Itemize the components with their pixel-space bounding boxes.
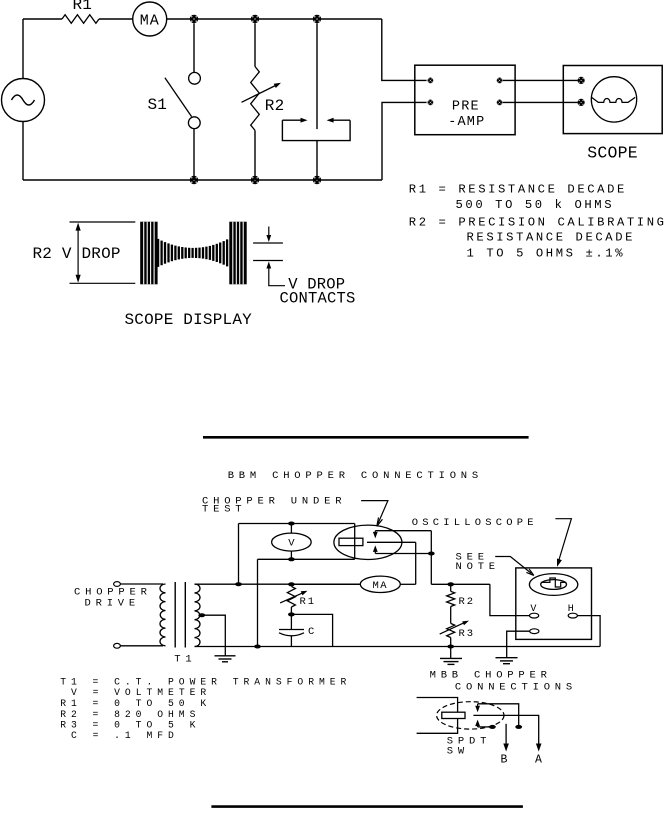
label H terminal [568,604,574,615]
chopper contact lower arrow [373,545,378,553]
wire C bottom stub [290,636,292,647]
leader oscilloscope arrow [555,519,571,567]
mbb wire bottom contact [478,726,493,728]
oscilloscope V terminal [530,613,539,618]
label S1 [148,96,168,114]
wire R2-R3 [450,607,452,624]
node bottom B [251,176,259,184]
wire through chopper coil [354,524,356,560]
wire top rail MA to corner [167,18,382,20]
transformer center tap dot [198,613,205,617]
label PRE [452,99,480,114]
wire R1 to MA meter [99,18,133,20]
svg-text:R2 V DROP: R2 V DROP [33,245,121,263]
wire bottom rail [23,179,382,181]
wire rail contacts to corner [431,583,490,585]
pre-amp terminal in bottom [428,100,434,106]
label R2 bottom [459,596,476,608]
wire S1 upper [193,23,195,72]
svg-text:-AMP: -AMP [448,115,485,130]
oscilloscope crt glyph [541,578,567,587]
wire center tap [202,615,226,656]
wire R2 upper [254,23,256,66]
scope terminal top [578,77,585,84]
svg-text:B: B [501,754,508,767]
svg-text:R1 = 0 TO 50 K: R1 = 0 TO 50 K [60,698,211,709]
leader chopper under test [361,501,388,527]
voltmeter V [272,533,312,551]
svg-text:T1: T1 [174,654,196,666]
label -AMP [448,115,485,130]
label OSCILLOSCOPE [412,517,538,529]
oscilloscope lower terminal [530,629,539,634]
separator line bottom [211,805,523,808]
mbb contact dot left [489,725,496,729]
pre-amp box U1 [415,65,515,135]
rheostat R1 bottom [287,586,295,607]
oscilloscope crt inner [541,580,567,590]
label R1 bottom [300,596,317,608]
resistor R2 bottom [447,591,455,606]
rheostat R2 [251,67,260,131]
wire chopper bottom contact [375,553,431,555]
wire MA to armature corner [400,583,415,585]
mbb chopper envelope [437,702,504,729]
transformer T1 core [175,582,185,648]
label SPDT [447,736,491,748]
label SCOPE DISPLAY [125,311,253,329]
chopper drive terminal top [114,582,121,587]
mbb armature wire to A [473,715,541,751]
svg-text:T1 = C.T. POWER TRANSFORMER: T1 = C.T. POWER TRANSFORMER [60,677,351,688]
wire top rail chopper [239,523,355,525]
wire top rail segment left [23,18,62,20]
svg-text:R1: R1 [73,0,93,14]
mbb contact upper arrow [475,704,480,712]
scope display left block [140,222,157,285]
wire pre-amp to scope bottom [503,101,578,103]
wire contacts to bottom rail [316,141,318,180]
wire secondary top to rail [195,583,361,585]
junction dot R1-C [288,612,295,616]
oscilloscope box [516,568,592,640]
wire C top stub [290,614,292,629]
contacts dim tick lower [253,260,283,262]
note R2 value line 3 [467,246,626,260]
wire rail R1 to MA [291,583,360,585]
svg-text:MA: MA [140,13,160,30]
ac source generator [2,79,45,122]
label CONNECTIONS [455,681,577,693]
label SCOPE [587,143,638,162]
wire S1 lower [193,129,195,180]
wire R1 to junction [290,607,292,614]
svg-text:1 TO 5 OHMS ±.1%: 1 TO 5 OHMS ±.1% [467,246,626,260]
chopper under test envelope [334,525,402,559]
svg-text:DRIVE: DRIVE [85,598,141,610]
label MBB CHOPPER [430,669,552,681]
oscilloscope crt outer [529,574,577,596]
mbb B arrow [503,724,509,752]
wire R2 lower [254,130,256,180]
note R1 value line 1 [409,183,627,197]
separator line middle [203,436,529,439]
contacts dim tick upper [253,242,283,244]
scope crt circle [591,77,636,122]
junction dot R2 top [447,582,454,586]
dimension vertical arrow [76,223,81,283]
label B [501,754,508,767]
mbb wire top contact [478,704,519,727]
chopper contact upper arrow [373,531,378,539]
wire top rail corner down to pre-amp [382,19,427,80]
label V terminal [530,604,536,615]
svg-text:500 TO 50 k OHMS: 500 TO 50 k OHMS [456,198,615,212]
resistor R1 [62,15,99,24]
legend line 2 [71,687,211,698]
label R3 [459,628,476,640]
svg-text:R2: R2 [459,596,476,608]
pre-amp terminal out bottom [497,100,503,106]
node top A [190,15,198,23]
contact arrow right [327,118,351,123]
ground scope [496,658,518,664]
title BBM CHOPPER CONNECTIONS [228,470,483,482]
svg-text:BBM CHOPPER CONNECTIONS: BBM CHOPPER CONNECTIONS [228,470,483,482]
svg-text:V: V [288,538,295,550]
svg-text:A: A [535,754,542,767]
label TEST [202,504,246,516]
svg-text:S1: S1 [148,96,168,114]
rheostat R3 arrow [440,621,469,635]
chopper drive terminal bottom [114,643,121,648]
junction dot contacts [428,552,435,556]
wire chopper armature [367,541,416,543]
scope terminal bottom [578,99,585,106]
svg-text:SCOPE: SCOPE [587,143,638,162]
wire drive bottom [120,645,163,647]
wire chopper top contact [375,530,431,532]
switch S1 upper contact [189,72,201,84]
wire H terminal loop [577,616,600,647]
wire drive top [120,583,163,585]
legend line 4 [60,709,200,720]
mbb contact lower arrow [475,720,480,727]
wire contacts armature [316,23,318,129]
label CONTACTS [280,290,356,308]
oscilloscope H terminal [568,613,577,618]
svg-text:TEST: TEST [202,504,246,516]
rheostat R1 arrow [280,591,307,603]
svg-text:V = VOLTMETER: V = VOLTMETER [71,687,211,698]
wire corner down to V terminal [490,584,530,615]
wire R2 stub top [450,584,452,591]
meter MA [133,2,167,36]
contacts dim arrow upper [266,227,271,243]
svg-text:C = .1 MFD: C = .1 MFD [71,730,179,741]
svg-text:R1 = RESISTANCE DECADE: R1 = RESISTANCE DECADE [409,183,627,197]
wire ground rail [195,646,601,648]
transformer T1 primary coil [160,584,166,646]
junction dot V meter bottom [288,557,295,561]
switch S1 lower contact [188,117,200,129]
node top B [251,15,259,23]
transformer T1 secondary coil [195,584,201,647]
label R2 V DROP [33,245,121,263]
legend line 6 [71,730,179,741]
junction dot R3 ground rail [447,645,454,649]
mbb wire top left [417,698,458,713]
note R1 value line 2 [456,198,615,212]
svg-text:R2: R2 [265,97,285,115]
wire lower terminal [507,631,530,658]
label SW [447,746,469,758]
label R1 [73,0,93,14]
scope box [563,66,662,134]
switch S1 blade [165,78,192,117]
label CHOPPER UNDER [202,496,346,508]
wire bottom rail up to pre-amp [382,102,427,180]
dimension bottom line [70,282,136,284]
svg-text:CONTACTS: CONTACTS [280,290,356,308]
wire vertical armature down [415,542,417,584]
node bottom A [190,176,198,184]
wire V top stub [290,524,292,534]
wire left vertical from source to top rail [22,19,24,79]
legend line 3 [60,698,211,709]
svg-text:MA: MA [372,580,388,592]
label SEE [456,552,489,564]
contact arrow left [282,118,307,123]
dimension top line [70,221,136,223]
svg-text:SW: SW [447,746,469,758]
note R2 value line 1 [409,216,665,230]
mbb coil rect [442,712,465,718]
svg-text:PRE: PRE [452,99,480,114]
label V DROP [288,275,345,293]
svg-text:RESISTANCE DECADE: RESISTANCE DECADE [467,231,636,245]
svg-text:R3 = 0 TO 5 K: R3 = 0 TO 5 K [60,719,200,730]
legend line 1 [60,677,351,688]
capacitor C plate top [279,629,304,631]
wire V bottom stub [290,551,292,559]
svg-text:R2 = PRECISION CALIBRATING: R2 = PRECISION CALIBRATING [409,216,665,230]
junction dot V meter top [288,522,295,526]
pre-amp terminal out top [497,78,503,84]
mbb wire bottom left [417,719,458,734]
wire junction to corner [291,614,332,646]
junction dot ground rail left [254,645,261,649]
junction dot rail-left [235,582,242,586]
svg-text:C: C [308,626,316,638]
scope display waveform bars [158,239,227,267]
contacts dim arrow lower [266,262,285,286]
label T1 [174,654,196,666]
note R2 value line 2 [467,231,636,245]
wire left vertical from source to bottom rail [22,122,24,181]
ground center tap [215,656,236,662]
v-drop contacts box [282,120,350,140]
wire vertical top rail feed [238,524,240,585]
ground R3 [440,658,462,664]
svg-text:OSCILLOSCOPE: OSCILLOSCOPE [412,517,538,529]
svg-text:R1: R1 [300,596,317,608]
chopper coil rect [339,538,363,545]
label NOTE [456,561,500,573]
scope crt trace [592,97,636,102]
svg-text:NOTE: NOTE [456,561,500,573]
svg-text:R2 = 820 OHMS: R2 = 820 OHMS [60,709,200,720]
svg-text:MBB CHOPPER: MBB CHOPPER [430,669,552,681]
rheostat R3 [447,623,455,637]
label C [308,626,316,638]
wire V bottom row [258,558,355,560]
label R2 [265,97,285,115]
leader see note [495,557,534,576]
wire pre-amp to scope top [503,79,578,81]
svg-text:CONNECTIONS: CONNECTIONS [455,681,577,693]
pre-amp terminal in top [428,78,434,84]
meter MA bottom [360,576,400,592]
scope display right block [229,222,246,285]
svg-text:R3: R3 [459,628,476,640]
wire vertical contacts down [430,531,432,585]
node top C [313,15,321,23]
label A [535,754,542,767]
label CHOPPER [74,587,152,599]
junction dot R1 top [288,582,295,586]
svg-text:SCOPE DISPLAY: SCOPE DISPLAY [125,311,253,329]
wire R3 stub bottom [450,638,452,659]
capacitor C plate bottom [279,633,304,636]
mbb contact dot right [515,725,522,729]
wire vertical V-bottom to ground rail [257,559,259,646]
node bottom C [313,176,321,184]
legend line 5 [60,719,200,730]
label DRIVE [85,598,141,610]
rheostat R2 arrow [242,83,282,103]
